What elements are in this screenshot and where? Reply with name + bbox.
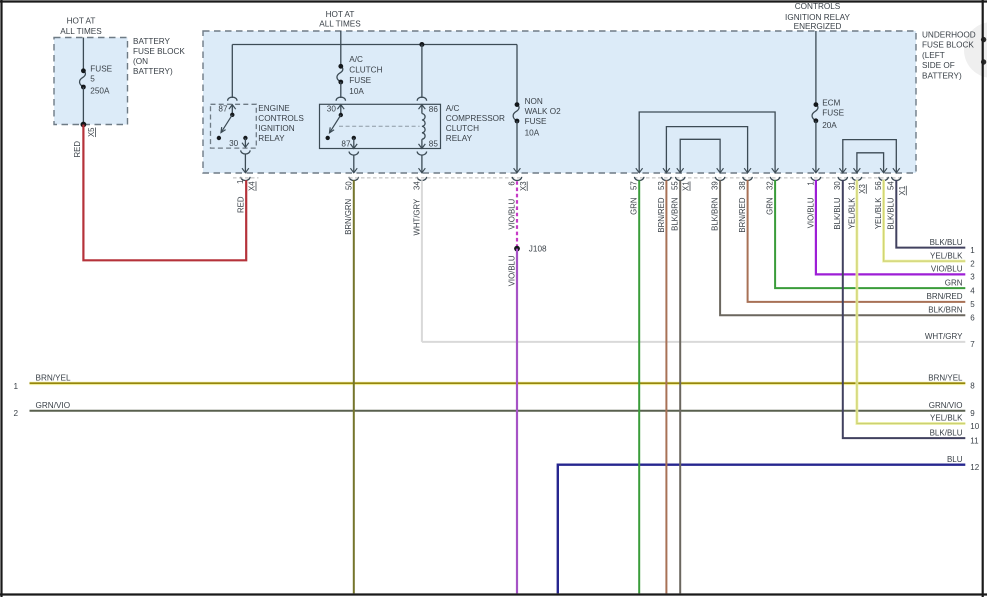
relay ENGINE CONTROLS IGNITION RELAY (dashed box)	[211, 104, 257, 148]
svg-text:FUSE: FUSE	[349, 76, 371, 85]
svg-text:54: 54	[887, 181, 896, 190]
wire BRN/RED pin 53 down	[665, 180, 667, 593]
svg-text:FUSE BLOCK: FUSE BLOCK	[133, 47, 185, 56]
pin 86 A/C relay entry	[417, 97, 426, 101]
svg-text:VIO/BLU: VIO/BLU	[931, 265, 963, 274]
svg-text:X4: X4	[248, 181, 257, 191]
svg-text:20A: 20A	[822, 121, 837, 130]
fuse FUSE 5 250A	[80, 71, 86, 87]
svg-text:6: 6	[508, 181, 517, 185]
wire loop pin 55 to pin 39	[680, 139, 720, 172]
wire GRN/VIO terminal 2-left to terminal 9	[30, 410, 966, 412]
svg-text:6: 6	[970, 314, 975, 323]
wire WHT/GRY pin 34 vertical	[421, 180, 423, 342]
node X5 junction dot	[81, 122, 87, 128]
svg-text:BATTERY: BATTERY	[133, 37, 171, 46]
svg-text:IGNITION: IGNITION	[258, 124, 294, 133]
svg-text:1: 1	[14, 382, 19, 391]
svg-text:(ON: (ON	[133, 57, 148, 66]
wire fuse to X5 junction	[82, 87, 84, 125]
connector cup pin 54	[892, 177, 901, 181]
svg-text:YEL/BLK: YEL/BLK	[930, 251, 963, 260]
wire VIO/BLU dashed pin 6 to J108	[516, 181, 518, 248]
wire battery feed into fuse block	[82, 38, 84, 71]
svg-text:BRN/RED: BRN/RED	[657, 197, 666, 232]
connector cup pin 30	[838, 177, 847, 181]
pin 1 X4 connector exit	[241, 177, 250, 181]
svg-text:RED: RED	[73, 141, 82, 158]
svg-text:9: 9	[970, 409, 975, 418]
pin 87 A/C relay	[352, 136, 356, 140]
wire bus to NON WALK O2 fuse	[516, 45, 518, 105]
svg-text:57: 57	[630, 181, 639, 190]
svg-text:1: 1	[806, 181, 815, 185]
svg-text:53: 53	[657, 181, 666, 190]
svg-text:A/C: A/C	[349, 55, 363, 64]
svg-text:ECM: ECM	[822, 99, 840, 108]
switch blade A/C relay	[339, 113, 343, 117]
connector X3 dashed boundary (pins 50/34/6)	[349, 177, 522, 179]
connector cup pin 39	[715, 177, 724, 181]
wire loop pin 53 to pin 38	[666, 127, 747, 173]
linkage dashed line A/C relay	[339, 125, 420, 127]
connector cup pin 53	[662, 177, 671, 181]
svg-text:BLK/BRN: BLK/BRN	[711, 198, 720, 231]
svg-text:BRN/YEL: BRN/YEL	[928, 374, 963, 383]
svg-text:32: 32	[766, 181, 775, 190]
connector below engine relay pin 30	[241, 150, 250, 154]
connector below A/C relay pin 87	[349, 152, 358, 156]
wire BRN/GRN pin 50 down	[353, 180, 355, 593]
svg-text:7: 7	[970, 340, 975, 349]
svg-text:GRN: GRN	[766, 198, 775, 215]
svg-text:11: 11	[970, 436, 979, 445]
pin 34 connector exit	[417, 177, 426, 181]
connector cup pin 38	[743, 177, 752, 181]
svg-text:GRN/VIO: GRN/VIO	[929, 401, 963, 410]
svg-text:WALK O2: WALK O2	[525, 107, 562, 116]
svg-text:85: 85	[429, 139, 439, 148]
svg-text:12: 12	[970, 463, 979, 472]
svg-text:VIO/BLU: VIO/BLU	[507, 255, 516, 286]
watermark circle	[964, 22, 987, 78]
svg-text:BATTERY): BATTERY)	[133, 67, 173, 76]
svg-text:BLU: BLU	[947, 455, 963, 464]
svg-text:2: 2	[14, 409, 19, 418]
wire A/C clutch fuse to relay pin 30	[340, 82, 342, 98]
pin 30 engine relay	[243, 136, 247, 140]
svg-text:ALL TIMES: ALL TIMES	[60, 27, 102, 36]
svg-text:8: 8	[970, 382, 975, 391]
coil A/C relay	[422, 114, 425, 140]
svg-text:34: 34	[413, 181, 422, 190]
wire bus drop to A/C relay pin 86	[421, 45, 423, 99]
fuse A/C CLUTCH FUSE 10A	[337, 66, 343, 82]
svg-text:250A: 250A	[90, 86, 110, 95]
svg-text:J108: J108	[529, 244, 547, 253]
svg-text:NON: NON	[525, 97, 543, 106]
pin 50 connector exit	[349, 177, 358, 181]
svg-text:10: 10	[970, 422, 979, 431]
wire BRN/YEL terminal 1-left to terminal 8	[30, 382, 966, 385]
connector cup pin 32	[770, 177, 779, 181]
connector X1/X3/X1 dashed boundary (right pins)	[634, 177, 902, 179]
svg-text:CLUTCH: CLUTCH	[349, 66, 382, 75]
wire RED battery to engine relay	[83, 125, 246, 261]
svg-text:RED: RED	[236, 196, 245, 213]
pin 30 A/C relay entry	[336, 97, 345, 101]
connector cup pin 6 X3	[512, 177, 521, 181]
svg-text:87: 87	[341, 139, 351, 148]
svg-text:3: 3	[970, 273, 975, 282]
svg-text:BRN/GRN: BRN/GRN	[344, 199, 353, 235]
svg-text:CLUTCH: CLUTCH	[446, 124, 479, 133]
svg-text:30: 30	[833, 181, 842, 190]
wire BLK/BRN horizontal to terminal 6	[720, 180, 965, 315]
svg-text:BLK/BLU: BLK/BLU	[887, 197, 896, 229]
svg-text:87: 87	[218, 105, 228, 114]
pin 87 engine relay entry	[228, 97, 237, 101]
svg-text:FUSE: FUSE	[525, 117, 547, 126]
connector cup pin 56	[879, 177, 888, 181]
wire loop pin 30 to pin 54	[843, 140, 897, 173]
svg-text:HOT AT: HOT AT	[326, 10, 355, 19]
svg-text:1: 1	[236, 180, 245, 184]
svg-text:BLK/BRN: BLK/BRN	[928, 306, 962, 315]
svg-text:BLK/BRN: BLK/BRN	[671, 198, 680, 231]
wire YEL/BLK to terminal 2	[884, 180, 966, 261]
wire GRN horizontal to terminal 4	[775, 180, 965, 288]
svg-text:86: 86	[429, 105, 439, 114]
svg-text:CONTROLS: CONTROLS	[795, 2, 841, 11]
wire ECM fuse to pin 1 X1	[815, 121, 817, 173]
svg-text:55: 55	[671, 181, 680, 190]
svg-text:1: 1	[970, 246, 975, 255]
svg-text:YEL/BLK: YEL/BLK	[847, 197, 856, 229]
svg-text:X3: X3	[858, 184, 867, 194]
svg-text:5: 5	[90, 75, 95, 84]
svg-text:31: 31	[847, 181, 856, 190]
svg-text:VIO/BLU: VIO/BLU	[507, 198, 516, 229]
svg-text:YEL/BLK: YEL/BLK	[930, 414, 963, 423]
wire bus HOT AT ALL TIMES horizontal	[232, 44, 517, 46]
wire NON WALK O2 fuse to pin 6 X3	[516, 121, 518, 173]
connector cup pin 55	[676, 177, 685, 181]
wire bus drop to engine relay pin 87	[231, 45, 233, 99]
svg-text:FUSE: FUSE	[822, 109, 844, 118]
svg-text:30: 30	[327, 105, 337, 114]
svg-text:BRN/RED: BRN/RED	[926, 292, 962, 301]
svg-text:X5: X5	[87, 127, 96, 137]
svg-text:ENERGIZED: ENERGIZED	[794, 22, 842, 31]
svg-text:A/C: A/C	[446, 104, 460, 113]
svg-text:WHT/GRY: WHT/GRY	[925, 332, 963, 341]
svg-text:X1: X1	[898, 186, 907, 196]
svg-text:50: 50	[344, 181, 353, 190]
wire BRN/RED horizontal to terminal 5	[748, 180, 966, 302]
svg-text:ALL TIMES: ALL TIMES	[319, 20, 361, 29]
svg-text:39: 39	[711, 181, 720, 190]
svg-text:FUSE BLOCK: FUSE BLOCK	[922, 41, 974, 50]
svg-text:RELAY: RELAY	[258, 134, 285, 143]
svg-text:30: 30	[229, 139, 239, 148]
svg-text:RELAY: RELAY	[446, 134, 473, 143]
connector cup pin 57	[635, 177, 644, 181]
wire BLK/BLU to terminal 1	[896, 180, 965, 248]
svg-text:COMPRESSOR: COMPRESSOR	[446, 114, 505, 123]
wire VIO/BLU horizontal to terminal 3	[816, 180, 965, 275]
svg-text:BLK/BLU: BLK/BLU	[930, 238, 963, 247]
wire YEL/BLK to terminal 10	[857, 180, 965, 424]
svg-text:GRN: GRN	[945, 278, 963, 287]
wire BLK/BRN pin 55 down	[679, 180, 681, 593]
svg-text:SIDE OF: SIDE OF	[922, 61, 955, 70]
connector X4 dashed boundary	[233, 177, 259, 179]
svg-text:X1: X1	[682, 181, 691, 191]
wire BLU terminal 12	[558, 465, 966, 594]
svg-text:56: 56	[874, 181, 883, 190]
svg-text:BRN/YEL: BRN/YEL	[36, 374, 71, 383]
svg-text:X3: X3	[519, 181, 528, 191]
connector cup pin 31	[852, 177, 861, 181]
connector below A/C relay pin 85	[417, 152, 426, 156]
wire loop pin 57 to pin 32	[639, 112, 775, 173]
svg-text:HOT AT: HOT AT	[67, 16, 96, 25]
node bus junction at pin 86 branch	[419, 42, 424, 47]
relay A/C COMPRESSOR CLUTCH RELAY (solid box)	[320, 104, 441, 148]
pin 6 X3 exit arrow	[514, 168, 521, 173]
svg-text:YEL/BLK: YEL/BLK	[874, 197, 883, 229]
wire WHT/GRY horizontal to terminal 7	[422, 341, 965, 343]
battery fuse block (on battery) - dashed box	[54, 38, 128, 125]
svg-text:FUSE: FUSE	[90, 65, 112, 74]
connector cup pin 1	[811, 177, 820, 181]
wire VIO/BLU J108 down	[516, 249, 518, 594]
svg-text:ENGINE: ENGINE	[258, 104, 290, 113]
fuse ECM FUSE 20A	[812, 105, 818, 121]
svg-text:UNDERHOOD: UNDERHOOD	[922, 31, 976, 40]
svg-text:VIO/BLU: VIO/BLU	[806, 197, 815, 228]
node J108 splice	[514, 246, 520, 252]
svg-text:BRN/RED: BRN/RED	[738, 197, 747, 232]
svg-text:10A: 10A	[525, 128, 540, 137]
svg-text:(LEFT: (LEFT	[922, 51, 945, 60]
svg-text:GRN/VIO: GRN/VIO	[36, 401, 71, 410]
wire center feed vertical to A/C clutch fuse	[340, 31, 342, 66]
svg-text:BLK/BLU: BLK/BLU	[833, 197, 842, 229]
wire loop pin 31 to pin 56	[857, 153, 884, 173]
svg-text:38: 38	[738, 181, 747, 190]
wire BLK/BLU to terminal 11	[843, 180, 966, 438]
svg-text:5: 5	[970, 300, 975, 309]
svg-text:2: 2	[970, 259, 975, 268]
svg-text:10A: 10A	[349, 87, 364, 96]
page frame	[0, 0, 987, 2]
svg-text:WHT/GRY: WHT/GRY	[412, 198, 421, 235]
underhood fuse block (left side of battery) - dashed box	[203, 31, 916, 173]
switch blade engine relay	[230, 113, 234, 117]
svg-text:BLK/BLU: BLK/BLU	[930, 428, 963, 437]
svg-text:CONTROLS: CONTROLS	[258, 114, 304, 123]
wire ECM fuse feed vertical	[815, 31, 817, 105]
svg-text:IGNITION RELAY: IGNITION RELAY	[785, 13, 850, 22]
fuse NON WALK O2 FUSE 10A	[513, 105, 519, 121]
svg-text:GRN: GRN	[630, 198, 639, 215]
wire GRN pin 57 down	[638, 180, 640, 593]
svg-text:4: 4	[970, 286, 975, 295]
svg-text:BATTERY): BATTERY)	[922, 72, 962, 81]
